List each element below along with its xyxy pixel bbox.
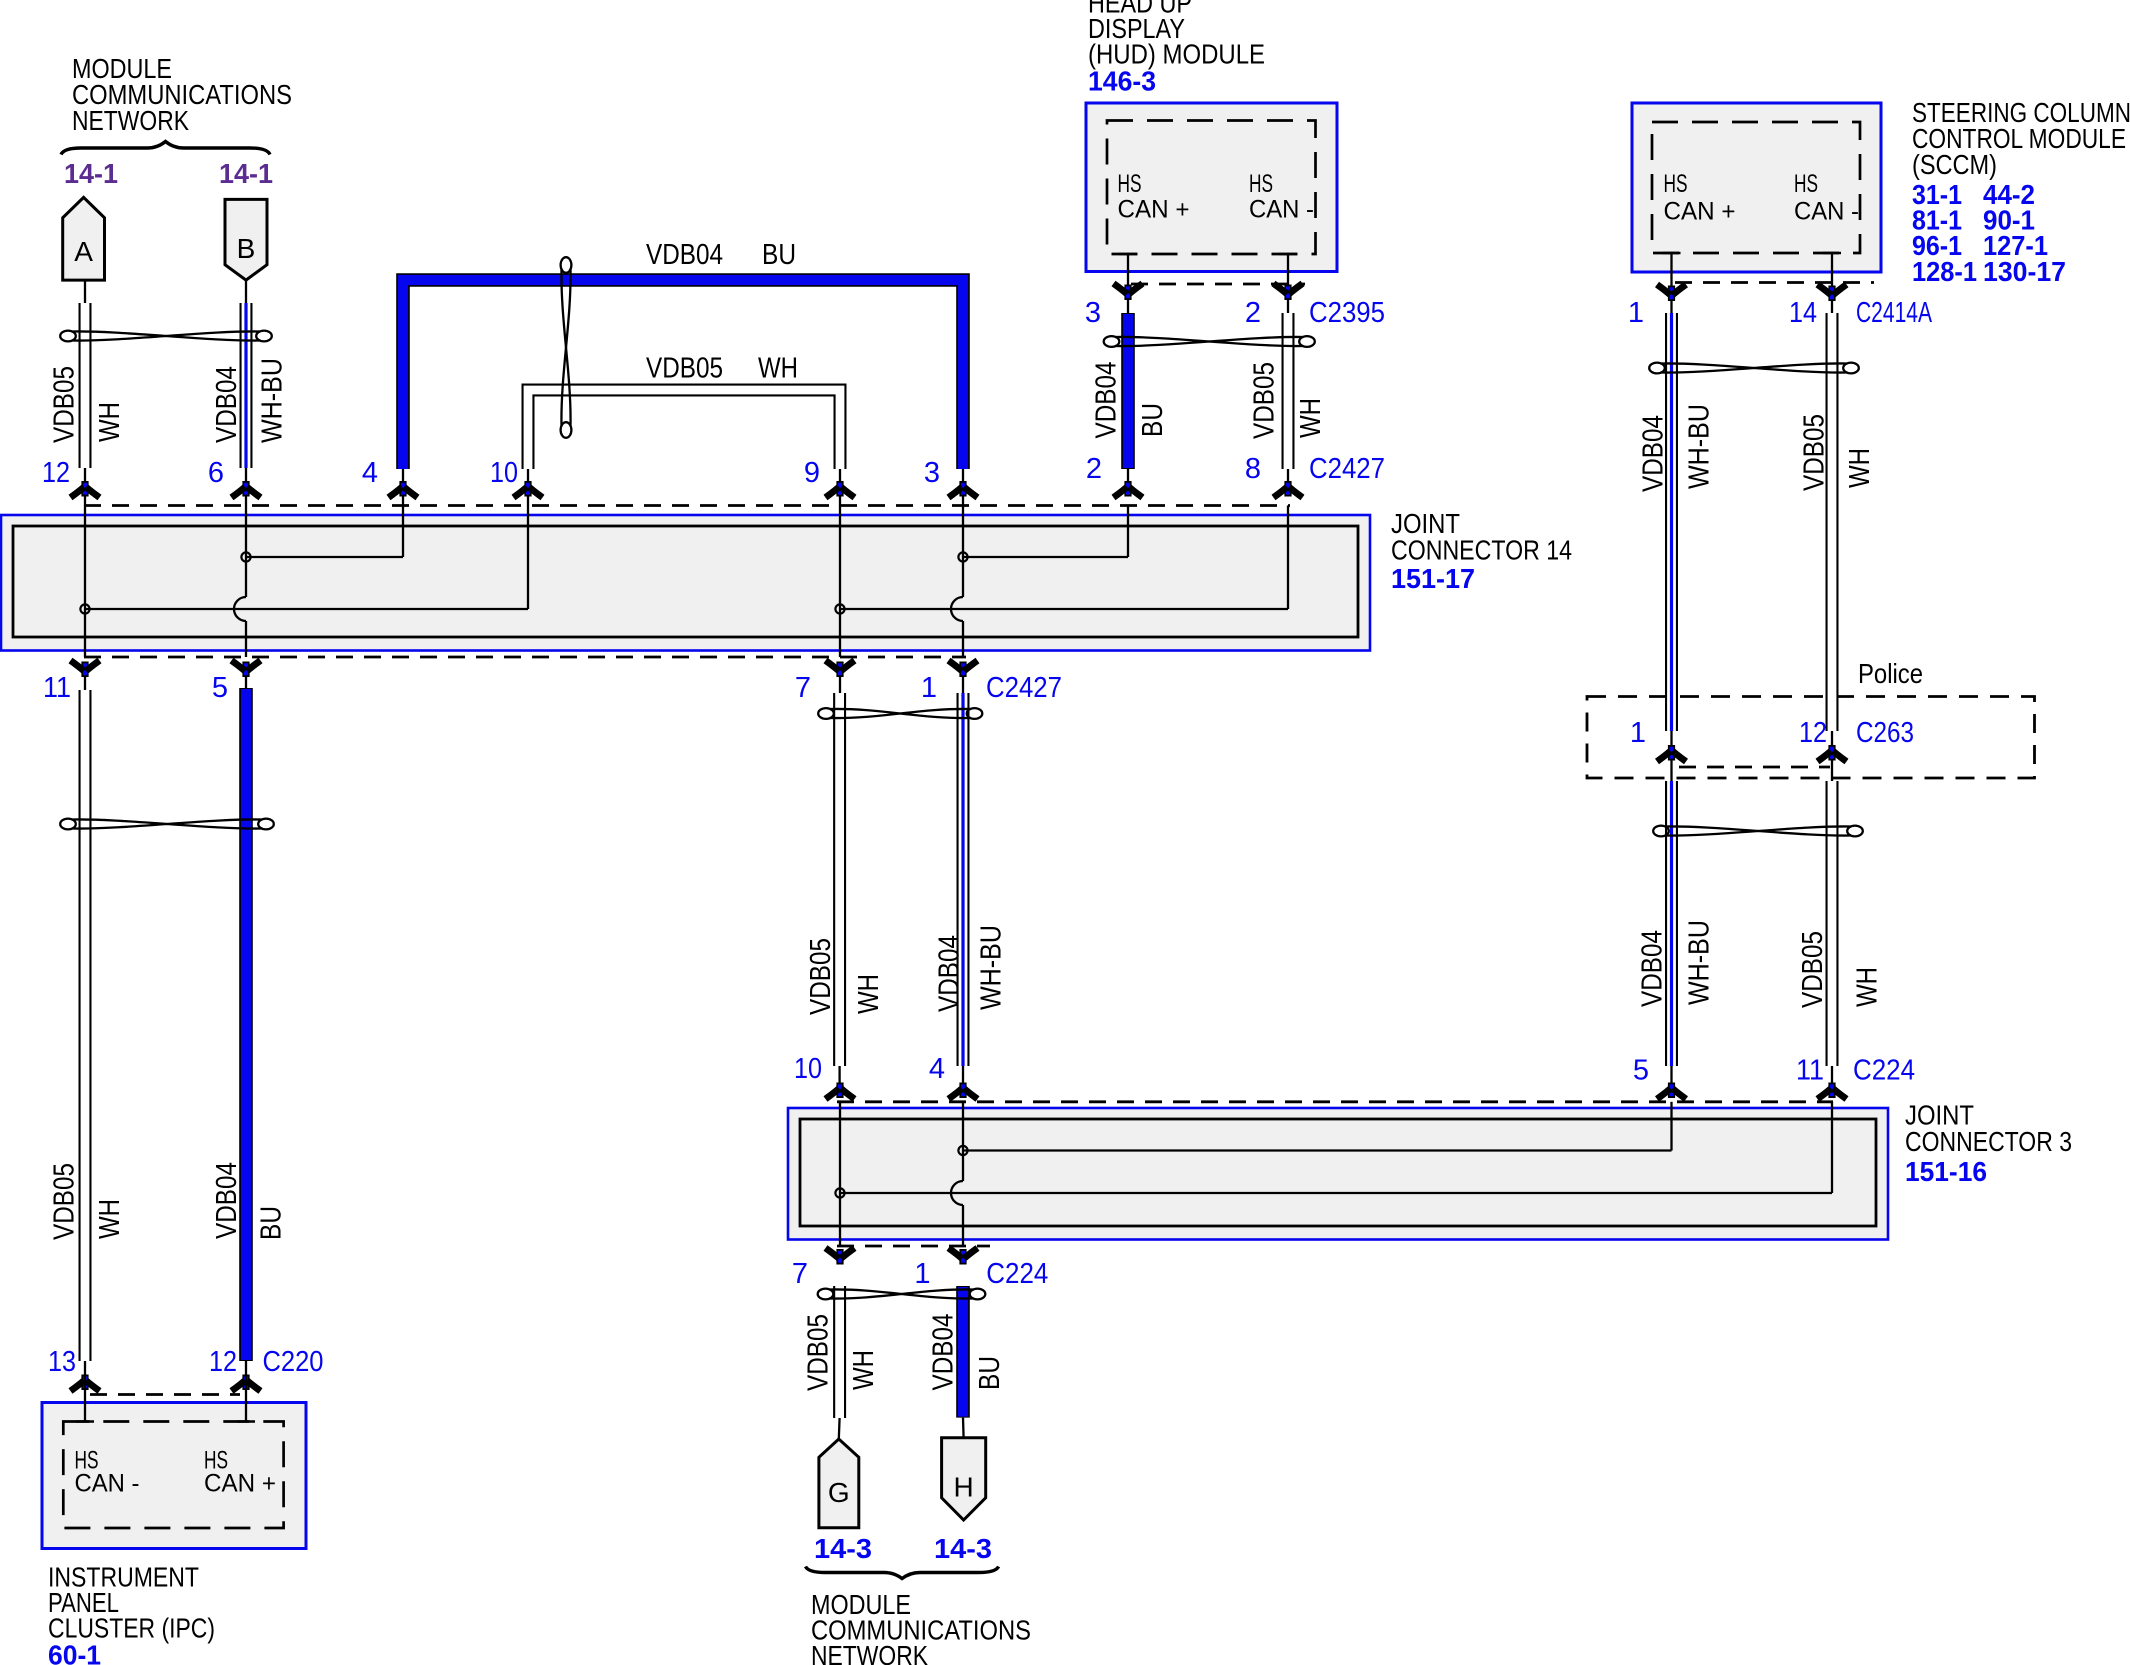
IPC pin 12 arrow [232,1375,261,1422]
JC14 bottom pin 5 label [212,672,228,704]
svg-text:WH: WH [94,402,126,442]
C263 pin 1 arrow [1657,745,1686,762]
Police label [1858,658,1923,689]
svg-text:VDB05: VDB05 [49,366,81,443]
IPC pin 13 arrow [71,1375,100,1422]
JC3 page ref 151-16 [1905,1156,1987,1187]
svg-text:C263: C263 [1856,717,1914,749]
svg-text:WH: WH [853,974,885,1014]
twisted pair symbol lower SCCM wires [1653,826,1863,837]
svg-text:BU: BU [1137,403,1169,437]
JC14 bottom pin 7 label [795,672,811,704]
svg-text:B: B [237,233,256,264]
JC14 page ref 151-17 [1391,563,1475,594]
wire VDB04 WH-BU from SCCM pin 1 to C263 pin 1 [1665,313,1678,731]
svg-text:CAN -: CAN - [1249,196,1314,224]
connector label C2427 top [1309,453,1385,485]
svg-text:VDB05: VDB05 [49,1163,81,1240]
JC3 internal wire pin4 to pin1 with hop [951,1102,963,1246]
JC14 bottom pin 5 arrow [232,661,261,678]
svg-text:VDB05: VDB05 [1249,362,1281,439]
label 14-3 for connector H [934,1533,992,1564]
JC14 bottom pin 7 arrow [826,661,855,678]
JC14 top pin 3 arrow [949,481,978,498]
svg-text:12: 12 [1799,717,1827,749]
svg-text:1: 1 [921,672,937,704]
svg-text:6: 6 [208,457,224,489]
label WH on lower SCCM wire [1852,967,1884,1007]
connector B symbol [225,199,267,280]
JC14 top pin 4 label [362,457,378,489]
label WH on IPC wire [94,1199,126,1239]
svg-text:VDB05: VDB05 [803,1314,835,1391]
HUD pin 3 stub wire [1119,254,1137,313]
wire VDB04 BU bus from JC14 pin 4 to pin 3 [403,280,963,506]
JC3 top pin 5 label [1633,1055,1649,1087]
label VDB05 WH on bus [646,353,798,385]
svg-text:151-16: 151-16 [1905,1156,1987,1187]
label 14-1 for connector A [64,158,118,189]
JC3 internal branch pin10 to pin11 [840,1102,1832,1193]
HUD C2395 pin 2 arrow [1274,284,1303,301]
svg-text:7: 7 [792,1258,808,1290]
JC3 internal wire pin10 to pin7 [839,1102,841,1246]
svg-text:WH-BU: WH-BU [976,925,1008,1010]
svg-text:VDB04: VDB04 [646,239,723,271]
connector A symbol [63,197,105,280]
svg-text:14-1: 14-1 [219,158,273,189]
svg-text:11: 11 [43,672,71,704]
HUD C2395 pin 3 arrow [1114,284,1143,301]
connector H symbol [942,1438,986,1520]
SCCM HS CAN - text [1794,170,1859,226]
label VDB04 BU on bus [646,239,796,271]
JC14 internal branch pin6 to pin4 [246,506,403,558]
svg-text:C2427: C2427 [1309,453,1385,485]
label VDB04 on B wire [211,366,243,443]
JC14 bottom pin 1 label [921,672,937,704]
svg-text:WH: WH [1295,398,1327,438]
HUD pin 2 stub wire [1279,254,1297,313]
C263 pin 12 arrow [1818,745,1847,762]
svg-text:VDB04: VDB04 [928,1314,960,1391]
label VDB05 on G wire [803,1314,835,1391]
svg-text:A: A [74,236,93,267]
wire VDB05 WH from C263 to JC3 pin 11 [1826,781,1839,1083]
SCCM title [1912,97,2130,180]
svg-text:CAN -: CAN - [75,1470,140,1498]
twisted pair symbol A-B [60,331,272,342]
svg-text:G: G [828,1477,850,1508]
svg-text:VDB04: VDB04 [211,366,243,443]
label VDB04 on HUD wire [1091,362,1123,439]
svg-text:1: 1 [1630,717,1646,749]
JC14 internal wire pin12 to pin11 [84,506,86,658]
label WH on A wire [94,402,126,442]
svg-text:VDB05: VDB05 [805,938,837,1015]
label VDB05 on SCCM wire [1799,414,1831,491]
JC14 junction node on pin6 line [241,552,250,561]
JC14 top pin 4 arrow [389,481,418,498]
svg-text:2: 2 [1245,297,1261,329]
svg-text:14-1: 14-1 [64,158,118,189]
svg-text:VDB04: VDB04 [1638,415,1670,492]
C263 wire pin 12 segment [1831,731,1833,781]
JC3 junction node on pin10 line [835,1188,844,1197]
JC3 top pin 11 label [1796,1055,1824,1087]
JC14 bottom pin 1 arrow [949,661,978,678]
C263 pin 1 label [1630,717,1646,749]
label VDB04 on H wire [928,1314,960,1391]
SCCM C2414A harness dashed line [1675,281,1874,284]
JC14 top pin 12 label [42,457,70,489]
HUD HS CAN - text [1249,170,1314,224]
JC14 top pin 12 arrow [71,481,100,498]
twisted pair symbol on IPC wires [60,819,274,830]
JC14 internal branch pin3 to pin2 [963,506,1128,558]
svg-text:CAN +: CAN + [1664,198,1736,226]
svg-text:CONNECTOR 14: CONNECTOR 14 [1391,535,1572,566]
Police dashed box [1587,697,2035,779]
JC3 top pin 4 label [929,1053,945,1085]
IPC page ref 60-1 [48,1640,101,1665]
svg-text:146-3: 146-3 [1088,66,1156,97]
svg-text:VDB04: VDB04 [1091,362,1123,439]
svg-text:BU: BU [256,1206,288,1240]
svg-text:12: 12 [209,1346,237,1378]
wire VDB05 WH from JC14 pin 7 to JC3 pin 10 [838,677,841,1083]
svg-text:130-17: 130-17 [1983,256,2066,287]
svg-text:14-3: 14-3 [814,1533,872,1564]
label VDB05 on C2427-C224 wire [805,938,837,1015]
svg-text:VDB05: VDB05 [1799,414,1831,491]
wire VDB04 WH-BU from connector B to JC14 pin 6 [245,280,247,506]
JC3 top pin 11 arrow [1818,1083,1847,1100]
JC14 top pin 2 label [1086,453,1102,485]
IPC C220 harness dashed line [90,1393,240,1396]
connector label C224 top [1853,1055,1915,1087]
svg-text:VDB05: VDB05 [1797,931,1829,1008]
wire VDB05 WH from SCCM pin 14 to C263 pin 12 [1826,313,1839,731]
connector G symbol [819,1439,859,1528]
JC14 internal branch pin12 to pin10 [85,506,528,610]
wire VDB05 WH from connector A to JC14 pin 12 [84,280,86,506]
svg-text:WH-BU: WH-BU [1684,920,1716,1005]
label VDB05 on lower SCCM wire [1797,931,1829,1008]
label WH-BU on B wire [257,358,289,443]
JC14 bottom pin 11 label [43,672,71,704]
svg-text:H: H [953,1472,973,1503]
twisted pair symbol G-H wires [818,1289,986,1300]
JC14 top pin 6 label [208,457,224,489]
JC14 junction node on pin3 line [958,552,967,561]
label VDB04 on C2427-C224 wire [934,935,966,1012]
JC3 top pin 5 arrow [1657,1083,1686,1100]
HUD pin 3 label [1085,297,1101,329]
wire VDB05 WH bus from JC14 pin 10 to pin 9 [528,390,840,506]
SCCM C2414A pin 1 arrow [1657,285,1686,302]
JC14 bottom pin 11 arrow [71,661,100,678]
svg-text:HS: HS [1664,170,1688,198]
wire VDB04 BU from JC3 pin 1 to connector H [956,1286,970,1438]
joint connector 3 box [788,1108,1888,1240]
JC3 title [1905,1100,2072,1158]
label VDB04 on IPC wire [211,1162,243,1239]
JC14 title [1391,508,1572,566]
twisted pair symbol HUD wires [1104,336,1315,347]
svg-text:C2395: C2395 [1309,297,1385,329]
connector label C2395 [1309,297,1385,329]
svg-text:14-3: 14-3 [934,1533,992,1564]
svg-text:5: 5 [212,672,228,704]
IPC pin 13 label [48,1346,76,1378]
svg-text:(SCCM): (SCCM) [1912,149,1997,180]
label WH on C2427-C224 wire [853,974,885,1014]
label VDB04 on lower SCCM wire [1637,930,1669,1007]
svg-text:CAN +: CAN + [204,1470,276,1498]
JC14 top harness dashed line [84,504,1290,507]
JC3 bottom pin 1 label [914,1258,930,1290]
JC14 top pin 8 arrow [1274,481,1303,498]
svg-text:5: 5 [1633,1055,1649,1087]
wire VDB04 BU from JC14 pin 5 to IPC pin 12 [245,677,247,1375]
SCCM HS CAN + text [1664,170,1736,226]
svg-text:10: 10 [794,1053,822,1085]
label VDB05 on A wire [49,366,81,443]
HUD pin 2 label [1245,297,1261,329]
twisted pair symbol SCCM wires [1649,363,1859,374]
C263 harness dashed line [1679,766,1830,769]
label VDB04 on SCCM wire [1638,415,1670,492]
svg-text:CONNECTOR 3: CONNECTOR 3 [1905,1126,2072,1157]
JC14 top pin 9 arrow [826,481,855,498]
IPC pin 12 label [209,1346,237,1378]
wire VDB05 WH from JC3 pin 7 to connector G [832,1286,846,1439]
svg-text:1: 1 [914,1258,930,1290]
svg-text:9: 9 [804,457,820,489]
JC14 internal branch pin9 to pin8 [840,506,1288,610]
svg-text:4: 4 [929,1053,945,1085]
JC3 top pin 10 arrow [826,1083,855,1100]
JC14 bottom harness dashed line [84,656,966,659]
SCCM module box [1632,103,1881,272]
svg-text:VDB04: VDB04 [934,935,966,1012]
JC3 bottom pin 7 label [792,1258,808,1290]
vertical twisted pair symbol on buses [561,257,572,438]
JC3 internal branch pin4 to pin5 [963,1102,1672,1151]
connector label C2427 bottom [986,672,1062,704]
svg-text:3: 3 [1085,297,1101,329]
JC14 top pin 8 label [1245,453,1261,485]
label WH on G wire [848,1350,880,1390]
svg-text:VDB04: VDB04 [1637,930,1669,1007]
svg-text:12: 12 [42,457,70,489]
label BU on H wire [974,1356,1006,1390]
bottom network label [811,1589,1031,1665]
connector label C224 bottom [986,1258,1048,1290]
SCCM pin 14 stub wire [1823,253,1841,313]
C263 pin 12 label [1799,717,1827,749]
svg-text:128-1: 128-1 [1912,256,1977,287]
top-left network label [72,53,292,136]
svg-text:10: 10 [490,457,518,489]
JC14 top pin 3 label [924,457,940,489]
JC14 top pin 6 arrow [232,481,261,498]
JC14 internal wire pin9 to pin7 [839,506,841,658]
wire VDB05 WH from JC14 pin 11 to IPC pin 13 [84,677,86,1375]
svg-text:11: 11 [1796,1055,1824,1087]
label VDB05 on IPC wire [49,1163,81,1240]
svg-text:WH: WH [1844,448,1876,488]
svg-text:C224: C224 [986,1258,1048,1290]
svg-text:1: 1 [1628,297,1644,329]
connector label C2414A [1856,297,1932,329]
svg-text:2: 2 [1086,453,1102,485]
SCCM pin 1 label [1628,297,1644,329]
label 14-1 for connector B [219,158,273,189]
svg-text:8: 8 [1245,453,1261,485]
JC3 bottom harness dashed line [837,1245,990,1248]
HUD HS CAN + text [1118,170,1190,224]
SCCM page refs [1912,179,2066,287]
joint connector 14 box [1,515,1370,651]
svg-text:Police: Police [1858,658,1923,689]
label BU on HUD wire [1137,403,1169,437]
IPC module box [42,1403,306,1549]
brace under connectors G and H [806,1567,999,1579]
SCCM pin 1 stub wire [1663,253,1681,313]
svg-text:NETWORK: NETWORK [72,105,189,136]
svg-text:60-1: 60-1 [48,1640,101,1665]
SCCM pin 14 label [1789,297,1817,329]
svg-text:WH-BU: WH-BU [1684,404,1716,489]
JC3 bottom pin 7 arrow [826,1248,855,1265]
svg-text:14: 14 [1789,297,1817,329]
svg-text:13: 13 [48,1346,76,1378]
svg-text:VDB04: VDB04 [211,1162,243,1239]
label WH on SCCM wire [1844,448,1876,488]
JC3 top pin 4 arrow [949,1083,978,1100]
svg-text:4: 4 [362,457,378,489]
svg-text:WH: WH [758,353,798,385]
JC14 internal wire pin6 to pin5 with hop [234,506,246,658]
JC3 junction node on pin4 line [958,1146,967,1155]
HUD title [1088,0,1265,70]
svg-text:HS: HS [1118,170,1142,198]
svg-text:CAN +: CAN + [1118,196,1190,224]
connector label C263 [1856,717,1914,749]
label 14-3 for connector G [814,1533,872,1564]
svg-text:WH: WH [848,1350,880,1390]
svg-text:HS: HS [1249,170,1273,198]
svg-text:WH: WH [1852,967,1884,1007]
svg-text:151-17: 151-17 [1391,563,1475,594]
label WH-BU on SCCM wire [1684,404,1716,489]
label VDB05 on HUD wire [1249,362,1281,439]
wire VDB05 WH from HUD pin 2 to JC14 pin 8 [1282,313,1295,481]
JC14 top pin 10 label [490,457,518,489]
SCCM C2414A pin 14 arrow [1818,285,1847,302]
JC3 bottom pin 1 arrow [949,1248,978,1265]
HUD page ref 146-3 [1088,66,1156,97]
svg-text:7: 7 [795,672,811,704]
label WH on HUD wire [1295,398,1327,438]
JC14 top pin 2 arrow [1114,481,1143,498]
svg-text:NETWORK: NETWORK [811,1640,928,1665]
label WH-BU on C2427-C224 wire [976,925,1008,1010]
C263 wire pin 1 segment [1670,731,1672,781]
brace over connectors A and B [61,142,270,155]
JC14 top pin 10 arrow [514,481,543,498]
svg-text:VDB05: VDB05 [646,353,723,385]
wire VDB04 WH-BU from JC14 pin 1 to JC3 pin 4 [962,677,964,1083]
IPC HS CAN - text [75,1447,140,1498]
JC14 internal wire pin3 to pin1 with hop [951,506,963,658]
JC14 top pin 9 label [804,457,820,489]
svg-text:BU: BU [762,239,796,271]
svg-text:C224: C224 [1853,1055,1915,1087]
IPC title [48,1562,215,1644]
svg-text:CAN -: CAN - [1794,198,1859,226]
svg-text:C2427: C2427 [986,672,1062,704]
JC14 junction node on pin12 line [80,604,89,613]
JC14 junction node on pin9 line [835,604,844,613]
twisted pair symbol C2427-C224 wires [818,708,982,719]
IPC HS CAN + text [204,1447,276,1498]
svg-text:BU: BU [974,1356,1006,1390]
svg-text:C220: C220 [263,1346,324,1378]
HUD C2395 harness dashed line [1131,283,1305,286]
label WH-BU on lower SCCM wire [1684,920,1716,1005]
connector label C220 [263,1346,324,1378]
svg-text:3: 3 [924,457,940,489]
svg-text:WH: WH [94,1199,126,1239]
HUD module box [1086,103,1337,272]
JC3 top harness dashed line [837,1100,1833,1103]
JC3 top pin 10 label [794,1053,822,1085]
wire VDB04 WH-BU from C263 to JC3 pin 5 [1665,781,1678,1083]
label BU on IPC wire [256,1206,288,1240]
wire VDB04 BU from HUD pin 3 to JC14 pin 2 [1121,313,1135,481]
svg-text:WH-BU: WH-BU [257,358,289,443]
svg-text:HS: HS [1794,170,1818,198]
svg-text:C2414A: C2414A [1856,297,1932,329]
